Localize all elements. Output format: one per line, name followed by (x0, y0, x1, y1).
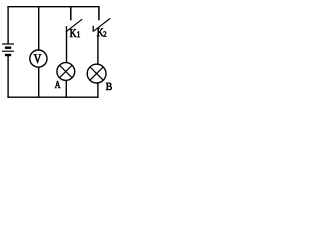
wire: lamp B down to bottom bus corner (97, 83, 99, 98)
label A (55, 81, 61, 88)
battery (two cells) on left branch (2, 44, 14, 55)
wire: top bus from left corner to right corner (7, 6, 99, 8)
switch K1 (open): blade and pivot terminal (67, 19, 83, 32)
wire: bottom bus from left corner to right corner (7, 96, 98, 98)
lamp B (circle with X) (87, 64, 106, 83)
wire: below K2 label down to lamp B (97, 35, 99, 65)
wire: voltmeter branch, meter down to bottom bus (38, 67, 40, 97)
label K1 (70, 29, 76, 37)
wire: left side, top corner down to battery (7, 6, 9, 44)
wire: K2 branch, top bus down to switch contact (98, 6, 100, 20)
switch K2 (open): blade and pivot terminal (93, 18, 110, 31)
label K2 (97, 28, 103, 36)
label B (106, 83, 112, 90)
wire: K1 branch, top bus down to switch contact (70, 7, 72, 21)
voltmeter V (circle with letter V) (30, 50, 47, 67)
wire: lamp A down to bottom bus (65, 80, 67, 97)
wire: left side, battery down to bottom corner (7, 55, 9, 98)
wire: voltmeter branch, top bus down to meter (38, 7, 40, 51)
lamp A (circle with X) (57, 63, 75, 81)
wire: switch K1 pivot down to lamp A (66, 31, 68, 63)
